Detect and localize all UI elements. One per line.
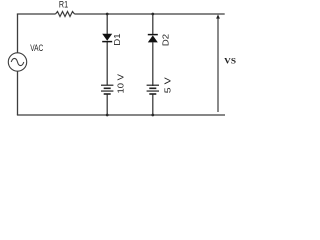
svg-text:10 V: 10 V [116, 74, 126, 94]
wire D2 branch from top bus [152, 14, 154, 35]
wire top-left vertical [17, 14, 19, 53]
source VAC [8, 53, 26, 71]
node junction dot bottom B2 [151, 114, 154, 117]
wire battery B1 to bottom bus [106, 94, 108, 115]
battery B1 10V [101, 85, 113, 94]
wire top bus right segment [75, 13, 225, 15]
svg-text:D2: D2 [161, 34, 171, 46]
svg-text:D1: D1 [112, 33, 122, 45]
battery B2 5V [147, 85, 159, 94]
node junction dot top D2 [151, 13, 154, 16]
wire bottom bus [17, 114, 225, 116]
wire D1 cathode to battery [106, 42, 108, 86]
node junction dot top D1 [106, 13, 109, 16]
wire battery B2 to bottom bus [152, 94, 154, 115]
svg-text:5 V: 5 V [162, 77, 172, 93]
measure arrow VS [216, 14, 220, 112]
node junction dot bottom B1 [106, 114, 109, 117]
diode D1 (cathode down) [102, 34, 112, 42]
svg-text:VAC: VAC [30, 43, 43, 53]
svg-text:VS: VS [224, 57, 236, 66]
resistor R1 [56, 12, 75, 17]
diode D2 (cathode up) [148, 35, 158, 43]
svg-text:R1: R1 [59, 0, 68, 10]
wire D1 anode from top bus [106, 14, 108, 34]
wire top bus left segment [17, 13, 56, 15]
wire VAC bottom vertical [17, 71, 19, 115]
wire D2 to battery [152, 42, 154, 86]
